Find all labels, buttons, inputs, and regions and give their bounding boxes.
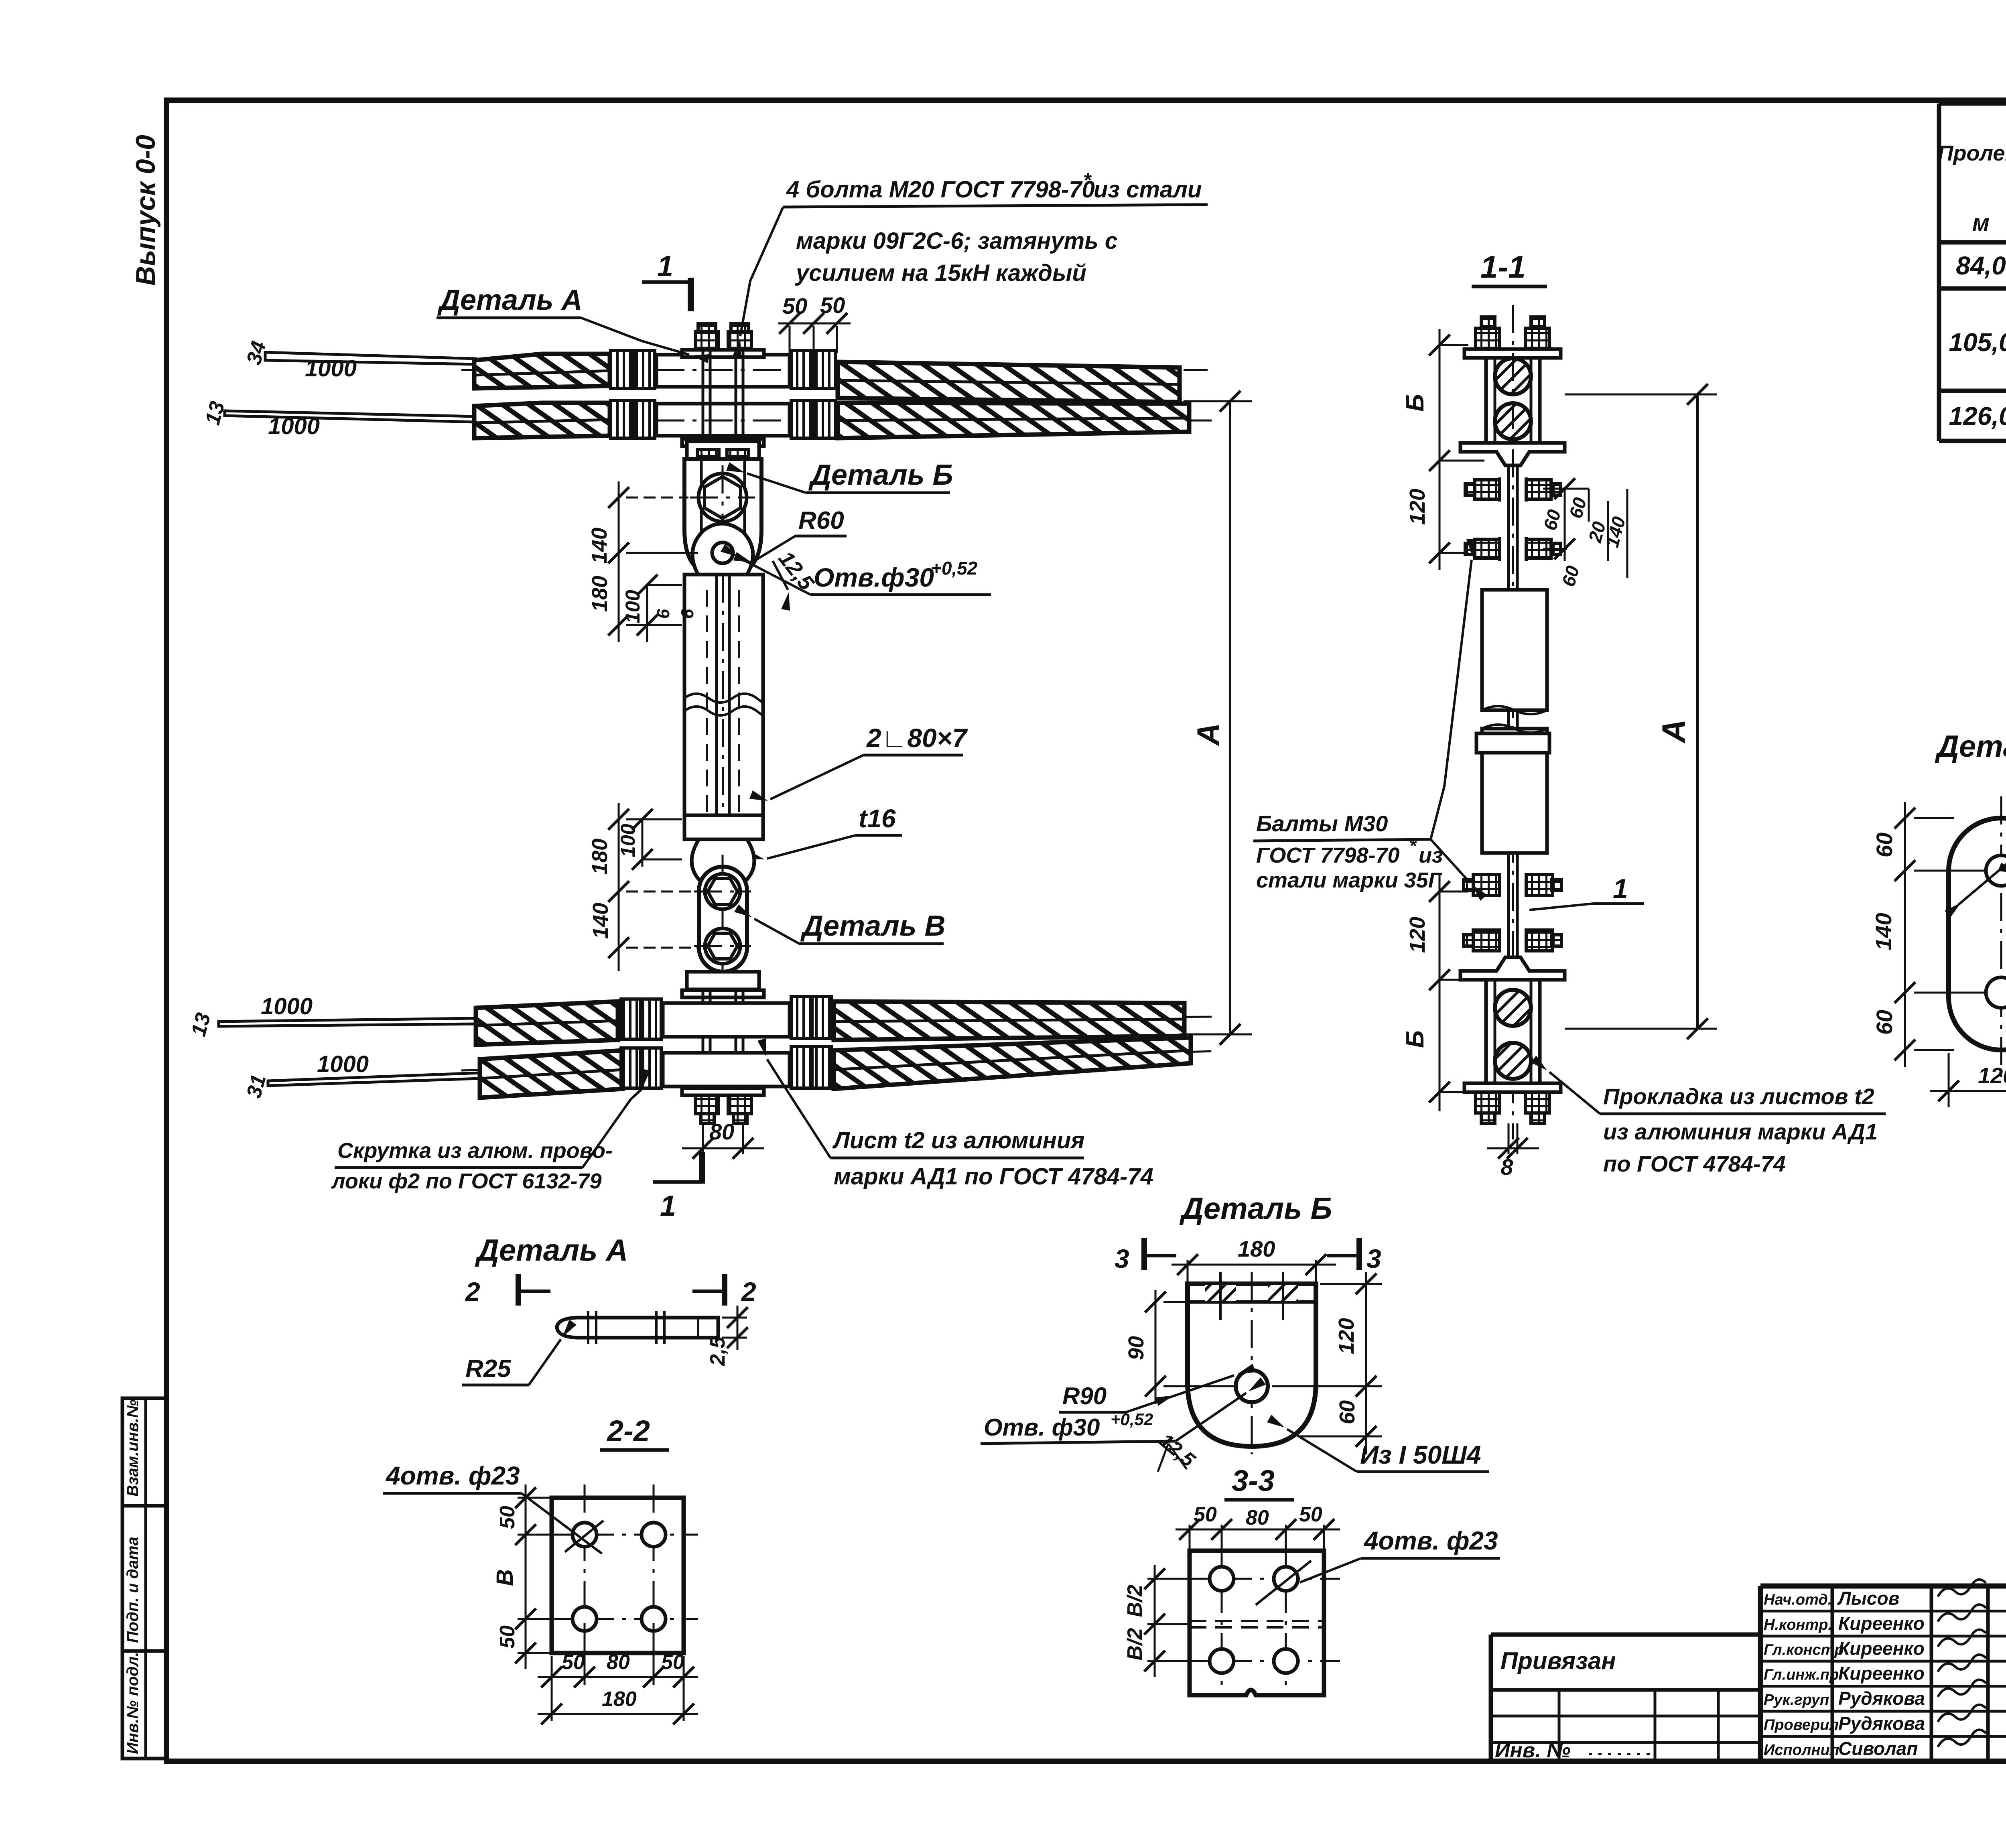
1-1 lower clamp body	[1486, 980, 1540, 1083]
svg-text:+0,52: +0,52	[931, 558, 978, 579]
1-1 bottom plate and nuts	[1464, 1083, 1561, 1123]
upper cable tubes between clamps	[656, 355, 791, 436]
note: Лист t2 из алюминия	[757, 1038, 1153, 1190]
svg-text:Н.контр.: Н.контр.	[1764, 1616, 1832, 1633]
svg-text:105,0: 105,0	[1949, 328, 2006, 357]
svg-text:50: 50	[496, 1625, 519, 1649]
1-1 bolt pair 3 (M30)	[1464, 875, 1561, 896]
svg-text:из алюминия марки АД1: из алюминия марки АД1	[1603, 1119, 1878, 1144]
svg-text:В: В	[492, 1569, 518, 1586]
svg-text:t16: t16	[859, 804, 896, 833]
svg-text:4 болта М20 ГОСТ 7798-70: 4 болта М20 ГОСТ 7798-70	[786, 177, 1095, 203]
svg-text:Привязан: Привязан	[1500, 1647, 1616, 1674]
svg-text:180: 180	[588, 576, 612, 612]
svg-text:Инв. №: Инв. №	[1495, 1739, 1571, 1762]
wire binding bands left, cable 2	[611, 400, 655, 438]
svg-text:2: 2	[465, 1277, 480, 1306]
svg-text:100: 100	[617, 824, 639, 857]
section flag 1 (bottom)	[653, 1152, 702, 1222]
Detail А section marks 2-2	[465, 1274, 756, 1306]
1-1 top clamp bottom flange	[1460, 443, 1565, 465]
svg-text:R60: R60	[798, 507, 844, 534]
svg-text:50: 50	[562, 1651, 585, 1674]
1-1 dimension 8 at bottom	[1487, 1123, 1539, 1180]
svg-text:3-3: 3-3	[1232, 1464, 1275, 1497]
wire binding bands right, cable 1	[791, 351, 835, 388]
svg-text:Балты М30: Балты М30	[1256, 811, 1388, 836]
1-1 strap band clamp	[1476, 733, 1549, 753]
2-2 label 4отв.ф23	[383, 1461, 603, 1554]
1-1 top clamp plate	[1464, 349, 1561, 358]
Detail В hole bottom ф30	[1986, 977, 2006, 1008]
Detail А dim 2,5	[706, 1306, 748, 1366]
svg-text:120: 120	[1405, 489, 1429, 525]
svg-text:А: А	[1190, 723, 1226, 746]
svg-text:из: из	[1419, 843, 1443, 867]
svg-text:2,5: 2,5	[706, 1336, 729, 1366]
Detail В label R60	[1945, 782, 2006, 918]
section flag 1 (top)	[642, 250, 691, 311]
3-3 plate	[1176, 1537, 1340, 1695]
lower clamp bolts M20	[695, 989, 751, 1123]
svg-text:80: 80	[709, 1119, 734, 1144]
svg-text:Пролет: Пролет	[1938, 141, 2006, 165]
top clamp plate	[682, 350, 764, 446]
dimension 50 50 above clamp	[778, 292, 851, 353]
1-1 channel plates (angles)	[1482, 590, 1547, 853]
svg-text:Из I 50Ш4: Из I 50Ш4	[1360, 1440, 1481, 1469]
svg-text:50: 50	[782, 293, 807, 319]
upper guy wire 2	[201, 399, 786, 439]
3-3 hole 4	[1274, 1649, 1298, 1673]
svg-text:120: 120	[1978, 1063, 2006, 1088]
3-3 top dims 50/80/50	[1176, 1503, 1340, 1573]
leader label 1 (position)	[1529, 873, 1644, 910]
Detail А label R25	[462, 1320, 577, 1385]
svg-text:*: *	[1083, 169, 1092, 191]
note: Скрутка из алюм. проволоки	[331, 1069, 650, 1193]
svg-text:Прокладка из листов t2: Прокладка из листов t2	[1603, 1084, 1874, 1109]
upper guy wire 1	[242, 339, 786, 382]
svg-text:1000: 1000	[317, 1051, 369, 1077]
svg-text:локи ф2 по ГОСТ 6132-79: локи ф2 по ГОСТ 6132-79	[331, 1169, 602, 1193]
label 2L80x7	[749, 723, 968, 801]
svg-text:84,0: 84,0	[1956, 251, 2006, 280]
svg-text:Деталь Б: Деталь Б	[1179, 1192, 1332, 1226]
1-1 lower clamp top flange	[1460, 957, 1565, 980]
svg-text:140: 140	[589, 903, 613, 939]
lower binding bands right	[791, 997, 831, 1088]
svg-text:3: 3	[1366, 1244, 1381, 1273]
dimension 80 below lower clamp	[682, 1119, 764, 1159]
Detail Б label Отв.ф30 +0,52 and 12,5	[981, 1377, 1266, 1472]
1-1 left dimension chain Б/120 (top)	[1401, 329, 1484, 570]
bolt M20 top-right with nut	[728, 324, 751, 441]
svg-text:Киреенко: Киреенко	[1838, 1638, 1925, 1659]
svg-text:1000: 1000	[305, 355, 357, 382]
svg-text:стали марки 35Г: стали марки 35Г	[1256, 868, 1443, 892]
svg-text:100: 100	[621, 590, 644, 623]
svg-text:3: 3	[1115, 1244, 1129, 1273]
svg-text:180: 180	[1238, 1236, 1275, 1261]
svg-text:6: 6	[678, 609, 697, 619]
label Деталь В with leader	[734, 904, 946, 944]
svg-text:50: 50	[1194, 1503, 1217, 1526]
1-1 cable section circles (top)	[1495, 358, 1531, 439]
svg-text:Б: Б	[1401, 394, 1429, 412]
Detail Б body (U-shape from I-beam)	[1180, 1272, 1324, 1454]
svg-text:50: 50	[820, 292, 845, 318]
3-3 hole 3	[1210, 1649, 1234, 1673]
upper cable 2 left splice (hatched)	[474, 403, 610, 438]
svg-text:Отв. ф30: Отв. ф30	[984, 1414, 1100, 1441]
svg-text:R90: R90	[1062, 1383, 1107, 1409]
svg-text:Лысов: Лысов	[1837, 1588, 1899, 1608]
svg-text:из стали: из стали	[1094, 177, 1202, 203]
strut lower eye	[692, 839, 754, 879]
Detail В title	[1935, 729, 2006, 764]
detail A label with leader	[437, 284, 709, 363]
Detail Б hole ф30	[1236, 1370, 1268, 1402]
svg-text:Б: Б	[1401, 1030, 1429, 1048]
svg-text:140: 140	[1871, 913, 1896, 950]
label Деталь Б with leader	[726, 459, 953, 493]
svg-text:1000: 1000	[268, 413, 320, 439]
svg-text:60: 60	[1335, 1400, 1359, 1424]
strut 2L80x7 angles	[684, 575, 763, 815]
svg-text:Деталь Б: Деталь Б	[808, 459, 953, 491]
svg-text:Киреенко: Киреенко	[1838, 1663, 1925, 1684]
svg-text:Проверил: Проверил	[1764, 1717, 1839, 1734]
2-2 hole 1	[573, 1523, 597, 1547]
svg-text:Выпуск 0-0: Выпуск 0-0	[130, 135, 161, 286]
1-1 bolt pair 4 (M30)	[1464, 930, 1561, 951]
svg-text:Деталь В: Деталь В	[1935, 729, 2006, 764]
svg-text:усилием на 15кН каждый: усилием на 15кН каждый	[795, 260, 1086, 286]
3-3 hole 2	[1274, 1567, 1298, 1591]
3-3 label 4отв.ф23	[1256, 1526, 1500, 1605]
svg-text:4отв. ф23: 4отв. ф23	[1363, 1526, 1498, 1555]
lower cable 2 right run (hatched)	[834, 1038, 1191, 1089]
Detail Б top dimension 180	[1172, 1236, 1336, 1288]
svg-text:м: м	[1972, 210, 1990, 236]
1-1 center strap	[1509, 305, 1517, 1139]
svg-text:1-1: 1-1	[1480, 249, 1526, 284]
svg-text:Рук.груп: Рук.груп	[1764, 1692, 1829, 1708]
svg-text:1: 1	[657, 250, 673, 282]
svg-text:90: 90	[1124, 1336, 1148, 1360]
label Отв.ф30 +0,52 (front view)	[721, 544, 991, 595]
centerline upper cable 2	[461, 420, 1212, 422]
label R60 (front view)	[733, 507, 847, 563]
2-2 plate	[538, 1484, 698, 1667]
svg-text:Скрутка из алюм. прово-: Скрутка из алюм. прово-	[337, 1139, 613, 1163]
lower guy wire 1	[187, 993, 786, 1039]
dimension A (front view)	[1180, 391, 1252, 1045]
bolt M30 lower (hex head)	[694, 928, 751, 964]
section 2-2 title	[600, 1414, 669, 1450]
svg-text:2: 2	[741, 1277, 756, 1306]
upper cable 1 left splice (hatched)	[474, 354, 610, 388]
svg-text:4отв. ф23: 4отв. ф23	[385, 1461, 520, 1490]
Detail Б left dimension 90	[1124, 1290, 1232, 1404]
svg-text:+0,52: +0,52	[1111, 1410, 1153, 1429]
lower clamp plates	[682, 972, 764, 1095]
strut break (wavy)	[684, 694, 763, 716]
1-1 top clamp body	[1486, 358, 1540, 443]
wire binding bands right, cable 2	[791, 400, 835, 438]
lower cable 1 left splice (hatched)	[476, 1001, 618, 1045]
lower guy wire 2	[242, 1051, 786, 1101]
svg-text:80: 80	[1246, 1506, 1269, 1529]
front view dimension chain lower-left (100/180/140)	[588, 803, 698, 971]
svg-text:Исполнил: Исполнил	[1764, 1742, 1839, 1759]
Detail Б right dimensions 120/60	[1272, 1272, 1382, 1454]
section 3-3 title	[1224, 1464, 1294, 1500]
strut lower portion	[684, 815, 763, 839]
svg-text:Сиволап: Сиволап	[1838, 1738, 1918, 1759]
svg-text:1000: 1000	[261, 993, 313, 1019]
svg-text:180: 180	[588, 839, 612, 875]
svg-text:Нач.отд.: Нач.отд.	[1764, 1591, 1832, 1608]
svg-text:60: 60	[1872, 1010, 1897, 1035]
centerline lower cable 2	[461, 1051, 1216, 1070]
svg-text:по ГОСТ 4784-74: по ГОСТ 4784-74	[1603, 1151, 1786, 1176]
svg-text:Инв.№ подл.: Инв.№ подл.	[124, 1652, 142, 1754]
svg-text:В/2: В/2	[1123, 1584, 1147, 1617]
svg-text:Деталь А: Деталь А	[475, 1233, 628, 1267]
margin stamp boxes bottom-left	[122, 1398, 166, 1759]
3-3 hole 1	[1210, 1567, 1234, 1591]
title block: staff table	[1760, 1580, 2006, 1761]
svg-text:А: А	[1656, 719, 1692, 743]
svg-text:2∟80×7: 2∟80×7	[866, 723, 968, 753]
svg-text:Лист t2 из алюминия: Лист t2 из алюминия	[832, 1127, 1084, 1153]
svg-text:В/2: В/2	[1123, 1628, 1147, 1660]
svg-text:8: 8	[1500, 1154, 1513, 1180]
Detail В bottom dimension 120	[1930, 1053, 2006, 1107]
svg-text:1: 1	[660, 1190, 676, 1222]
bolt M30 upper (hex head)	[694, 874, 751, 909]
2-2 hole 4	[642, 1607, 666, 1631]
lower cable 2 left splice (hatched)	[480, 1050, 623, 1098]
svg-text:126,0: 126,0	[1949, 402, 2006, 431]
Detail В plate (stadium)	[1926, 796, 2006, 1079]
svg-text:50: 50	[1299, 1503, 1322, 1526]
note: Балты М30	[1253, 539, 1487, 901]
svg-text:Подп. и дата: Подп. и дата	[124, 1537, 142, 1643]
svg-text:Рудякова: Рудякова	[1838, 1688, 1925, 1709]
svg-text:Киреенко: Киреенко	[1838, 1613, 1925, 1634]
upper cable 1 right run (hatched)	[838, 362, 1180, 402]
svg-text:50: 50	[496, 1506, 519, 1529]
lower binding bands left	[621, 999, 661, 1088]
1-1 bolt pair 1 (M30)	[1465, 477, 1561, 502]
Detail А title	[475, 1233, 628, 1267]
svg-text:60: 60	[1872, 833, 1897, 857]
Detail В hole top ф30	[1986, 855, 2006, 886]
svg-text:120: 120	[1405, 917, 1429, 953]
2-2 hole 2	[642, 1523, 666, 1547]
svg-text:Отв.ф30: Отв.ф30	[814, 563, 934, 592]
svg-text:Гл.констр: Гл.констр	[1764, 1641, 1844, 1658]
svg-text:1: 1	[1613, 873, 1628, 904]
Detail В label 2отв.ф30	[1998, 816, 2006, 904]
Detail Б label R90	[1059, 1364, 1256, 1412]
svg-text:марки АД1 по ГОСТ 4784-74: марки АД1 по ГОСТ 4784-74	[834, 1164, 1153, 1190]
strut upper eye with hole ф30	[692, 524, 753, 575]
lower cable 1 right run (hatched)	[834, 1001, 1184, 1040]
svg-text:80: 80	[607, 1651, 630, 1674]
svg-text:Деталь А: Деталь А	[437, 284, 583, 316]
svg-text:Взам.инв.№: Взам.инв.№	[124, 1399, 142, 1497]
1-1 bolt pair 2 (M30)	[1465, 537, 1561, 561]
2-2 bottom dims 50/80/50 and 180	[538, 1623, 698, 1724]
centerline lower cable 1	[461, 1017, 1216, 1021]
2-2 hole 3	[573, 1607, 597, 1631]
svg-text:120: 120	[1334, 1318, 1358, 1354]
label 12,5 (front view)	[773, 546, 819, 611]
svg-text:180: 180	[602, 1688, 637, 1711]
3-3 left dims В/2 В/2	[1123, 1565, 1208, 1677]
upper shackle bracket (Detail Б assembly)	[684, 441, 761, 575]
svg-text:R25: R25	[465, 1355, 512, 1383]
svg-text:марки 09Г2С-6; затянуть с: марки 09Г2С-6; затянуть с	[796, 228, 1118, 254]
Detail Б section marks 3-3	[1115, 1238, 1381, 1273]
shackle pin bolt (hex)	[690, 465, 755, 530]
svg-text:*: *	[1409, 835, 1417, 856]
title block: binding box (Привязан)	[1491, 1635, 1760, 1762]
upper cable 2 right run (hatched)	[838, 403, 1189, 438]
Detail В plate in assembly (stadium)	[699, 855, 747, 987]
wire binding bands left, cable 1	[611, 351, 655, 388]
1-1 cable section circles (bottom)	[1495, 990, 1531, 1079]
Detail А flat bar	[557, 1311, 718, 1344]
centerline upper cable 1	[461, 369, 1208, 371]
svg-text:6: 6	[654, 609, 673, 619]
Detail Б title	[1179, 1192, 1332, 1226]
front view dimension chain upper-left (140/180/100/6)	[587, 481, 698, 642]
1-1 left dimension chain 120/Б (bottom)	[1401, 875, 1484, 1111]
1-1 dimension A (right)	[1565, 384, 1717, 1039]
svg-text:Деталь В: Деталь В	[800, 910, 946, 942]
svg-text:50: 50	[661, 1651, 684, 1674]
svg-text:Гл.инж.пр: Гл.инж.пр	[1764, 1667, 1839, 1684]
bolt M20 top-left with nut	[695, 324, 719, 441]
svg-text:ГОСТ 7798-70: ГОСТ 7798-70	[1256, 843, 1400, 867]
2-2 left dim chain 50/В/50	[492, 1484, 574, 1669]
Detail В left dimension chain 60/140/60	[1871, 802, 1986, 1067]
svg-text:Рудякова: Рудякова	[1838, 1713, 1925, 1734]
svg-text:140: 140	[587, 528, 611, 564]
note: Прокладка из листов t2	[1531, 1056, 1886, 1176]
1-1 top clamp: nuts	[1476, 317, 1549, 349]
margin label: Выпуск 0-0	[130, 135, 161, 286]
note: 4 bolts M20	[733, 169, 1208, 357]
1-1 small dimension chain at bolts	[1539, 478, 1630, 589]
label t16	[746, 804, 902, 859]
section 1-1 title	[1472, 249, 1547, 286]
parameter table	[1938, 104, 2006, 441]
svg-text:2-2: 2-2	[606, 1414, 650, 1448]
Detail Б label Из I 50Ш4	[1267, 1415, 1489, 1472]
lower cable tubes	[663, 1003, 790, 1086]
